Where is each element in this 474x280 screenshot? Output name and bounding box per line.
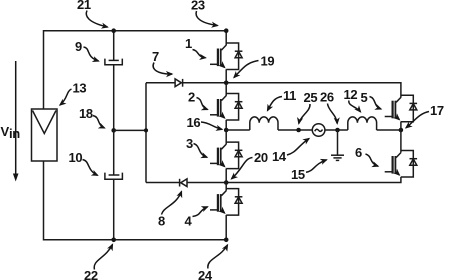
- wire: node 17 to IGBT5 emitter: [400, 122, 402, 131]
- inductor L11: [250, 117, 278, 130]
- svg-text:8: 8: [158, 214, 165, 229]
- transistor Q4 (IGBT 4) with freewheel diode: [210, 189, 242, 216]
- node 18 junction dot: [111, 128, 116, 133]
- label 12 arrow: [349, 101, 361, 112]
- Vin arrowhead: [13, 174, 19, 182]
- node 16 junction dot: [224, 128, 229, 133]
- wire: IGBT3 emitter to node 20: [225, 168, 227, 182]
- wire: C9 to node 18: [113, 65, 115, 131]
- svg-text:26: 26: [320, 90, 334, 105]
- transistor Q3 (IGBT 3) with freewheel diode: [210, 142, 242, 169]
- svg-text:3: 3: [186, 136, 193, 151]
- svg-text:19: 19: [261, 54, 275, 69]
- label 2 arrow: [197, 98, 208, 110]
- capacitor C10 top plate: [109, 174, 120, 176]
- svg-text:14: 14: [272, 149, 287, 164]
- svg-text:4: 4: [185, 214, 193, 229]
- label 19 arrow: [234, 61, 259, 78]
- wire: node 18 to C10: [113, 130, 115, 174]
- label 13 arrow: [60, 89, 72, 105]
- svg-text:10: 10: [69, 150, 83, 165]
- label 26 arrow: [328, 104, 338, 124]
- svg-text:in: in: [9, 126, 20, 141]
- AC source tilde: [315, 129, 323, 131]
- wire: left rail lower (source to bottom rail): [43, 161, 45, 241]
- wire: bottom rail: [44, 239, 227, 241]
- wire: node 26 down to ground: [337, 130, 339, 155]
- transistor Q6 (IGBT 6) with freewheel diode: [385, 151, 417, 178]
- transistor Q2 (IGBT 2) with freewheel diode: [210, 94, 242, 121]
- label 1 arrow: [193, 50, 206, 58]
- svg-text:17: 17: [430, 103, 444, 118]
- label 11 arrow: [268, 97, 283, 111]
- node 19 junction dot: [224, 81, 229, 86]
- label 23 arrow: [196, 11, 217, 26]
- transistor Q1 (IGBT 1) with freewheel diode: [210, 43, 242, 70]
- wire: AC source to node 26: [325, 129, 348, 131]
- junction dot bottom rail / cap branch: [111, 238, 116, 243]
- wire: node16 to IGBT3 collector: [225, 130, 227, 144]
- label 18 arrow: [93, 116, 105, 129]
- inductor L12: [348, 117, 377, 130]
- transistor Q5 (IGBT 5) with freewheel diode: [385, 95, 417, 122]
- source box 13: [32, 109, 58, 161]
- wire: C10 to bottom rail: [113, 179, 115, 240]
- wire: mid box left vertical: [145, 83, 147, 183]
- label 5 arrow: [370, 97, 382, 110]
- label 10 arrow: [83, 160, 98, 176]
- label 6 arrow: [366, 154, 379, 166]
- label 4 arrow: [193, 207, 208, 217]
- wire: node19 to IGBT2 collector: [225, 83, 227, 96]
- svg-text:15: 15: [291, 167, 305, 182]
- svg-text:1: 1: [185, 36, 192, 51]
- wire: IGBT2 emitter to node 16: [225, 120, 227, 130]
- wire: IGBT1 emitter to node 19: [225, 69, 227, 83]
- wire: diode 7 to node 19 and onward to right bridge top: [183, 83, 401, 97]
- ground symbol 15: [331, 155, 344, 160]
- junction dot bottom rail / main rail: [224, 238, 229, 243]
- svg-text:2: 2: [188, 90, 195, 105]
- diode D8 cathode bar: [179, 179, 181, 187]
- wire: node 17 to IGBT6 collector: [400, 130, 402, 152]
- svg-text:5: 5: [361, 90, 368, 105]
- svg-text:21: 21: [77, 0, 91, 12]
- wire: inductor 11 to node 25: [278, 129, 312, 131]
- wire: inductor 12 to node 17: [377, 129, 401, 131]
- capacitor C9 top plate: [109, 59, 119, 61]
- svg-text:12: 12: [344, 87, 358, 102]
- label 3 arrow: [194, 144, 208, 158]
- label 15 arrow: [306, 160, 327, 173]
- label 16 arrow: [201, 122, 222, 129]
- label 17 arrow: [406, 112, 429, 128]
- wire: node 18 to mid box vertical: [114, 129, 146, 131]
- label 8 arrow: [162, 192, 182, 215]
- Vin arrow line: [15, 61, 17, 175]
- svg-text:9: 9: [75, 39, 82, 54]
- label 25 arrow: [299, 104, 310, 124]
- label 24 arrow: [208, 245, 228, 269]
- capacitor C10 cup plate: [105, 173, 123, 180]
- svg-text:7: 7: [152, 49, 159, 64]
- node 25 junction dot: [296, 128, 301, 133]
- svg-text:22: 22: [84, 268, 98, 280]
- node 20 junction dot: [224, 180, 229, 185]
- svg-text:20: 20: [254, 150, 268, 165]
- label 21 arrow: [86, 11, 107, 28]
- svg-text:6: 6: [355, 145, 362, 160]
- label 7 arrow: [153, 63, 172, 75]
- junction dot top rail / cap branch: [111, 28, 116, 33]
- source box chevron: [33, 111, 57, 134]
- svg-text:23: 23: [191, 0, 205, 13]
- wire: capacitor branch upper (top rail to C9): [113, 31, 115, 60]
- label 14 arrow: [287, 139, 309, 156]
- diode D8 triangle: [181, 179, 187, 187]
- AC source 14 circle: [312, 124, 325, 137]
- label 20 arrow: [232, 158, 253, 179]
- label 9 arrow: [84, 47, 99, 61]
- label 22 arrow: [94, 245, 112, 270]
- junction dot top rail / main rail: [224, 28, 229, 33]
- node 26 junction dot: [335, 128, 340, 133]
- junction dot at node 18 wire and box vertical: [144, 128, 148, 132]
- node 17 junction dot: [399, 128, 404, 133]
- wire: left rail upper (source to top rail): [43, 30, 45, 109]
- wire: top rail to IGBT1 collector: [225, 31, 227, 45]
- svg-text:18: 18: [79, 106, 93, 121]
- wire: node16 to inductor 11: [226, 129, 250, 131]
- wire: node20 to IGBT4 collector: [225, 183, 227, 191]
- svg-text:11: 11: [283, 88, 296, 103]
- capacitor C9 cup plate: [105, 59, 122, 65]
- wire: diode 8 to node 20 and onward to right bridge bottom: [187, 177, 401, 183]
- diode D7 cathode bar: [182, 79, 184, 87]
- svg-text:24: 24: [198, 268, 213, 280]
- diode D7 triangle: [175, 79, 181, 87]
- wire: lower clamp wire (to diode 8): [146, 182, 180, 184]
- svg-text:16: 16: [187, 115, 201, 130]
- wire: IGBT4 emitter to bottom rail: [225, 215, 227, 240]
- wire: top rail: [44, 30, 227, 32]
- svg-text:25: 25: [304, 90, 318, 105]
- svg-text:13: 13: [73, 81, 87, 96]
- wire: upper clamp wire (to diode 7): [146, 82, 175, 84]
